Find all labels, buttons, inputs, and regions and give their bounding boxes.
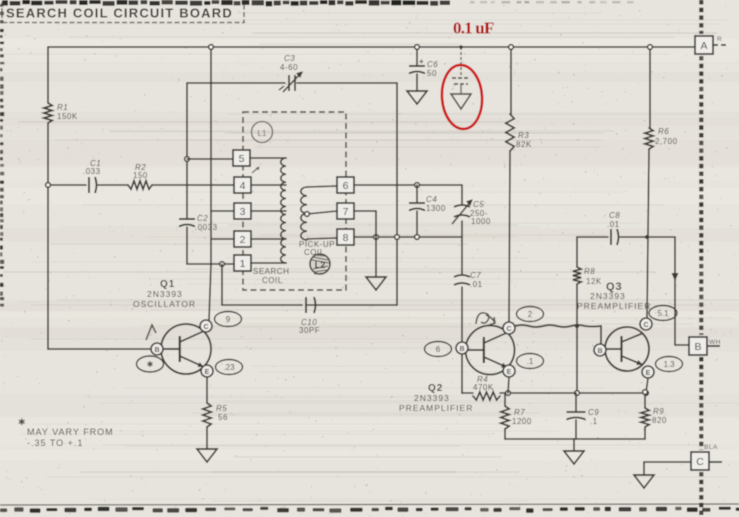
label Q3 2N3393 PREAMPLIFIER <box>577 281 651 311</box>
annotation ellipse 5.1 at Q3 collector <box>649 306 677 321</box>
svg-text:50: 50 <box>427 69 437 78</box>
svg-text:4-60: 4-60 <box>280 63 298 72</box>
svg-text:COIL: COIL <box>262 276 283 285</box>
svg-text:82K: 82K <box>516 140 532 149</box>
board edge dash-dot boundary <box>699 0 703 515</box>
terminal B <box>689 337 707 355</box>
svg-text:WH: WH <box>709 339 721 346</box>
title box: SEARCH COIL CIRCUIT BOARD <box>2 2 244 23</box>
red annotation text 0.1 uF <box>453 19 494 38</box>
svg-text:B: B <box>154 347 159 354</box>
svg-text:R6: R6 <box>658 127 669 136</box>
svg-text:6: 6 <box>343 180 349 192</box>
wire: bus y=237 terminal 8 to C7 branch <box>354 235 462 240</box>
svg-text:R3: R3 <box>518 131 529 140</box>
svg-text:C2: C2 <box>197 214 208 223</box>
transistor Q2 2N3393 preamplifier <box>456 322 515 377</box>
svg-text:E: E <box>646 370 651 377</box>
svg-text:✱: ✱ <box>147 360 154 369</box>
svg-text:150K: 150K <box>57 112 78 121</box>
wire + ground from terminal 7 <box>354 211 386 290</box>
svg-text:B: B <box>694 341 701 353</box>
annotation ellipse 2 at Q2 collector <box>517 307 544 322</box>
svg-text:OSCILLATOR: OSCILLATOR <box>133 299 196 309</box>
svg-text:R7: R7 <box>514 408 525 417</box>
wire: Q2 emitter drop <box>508 377 509 393</box>
capacitor C9 .1 <box>567 393 600 439</box>
svg-text:6: 6 <box>436 345 441 354</box>
annotation ellipse 6 at Q2 base <box>425 342 452 357</box>
pencil tick near terminal 5 <box>252 167 259 173</box>
capacitor C7 .01 <box>454 237 483 342</box>
svg-text:C5: C5 <box>473 200 484 209</box>
svg-text:C: C <box>696 456 704 468</box>
wire: terminal A leads <box>713 36 726 45</box>
label Q2 2N3393 PREAMPLIFIER <box>399 383 473 413</box>
svg-text:L1: L1 <box>258 129 267 138</box>
resistor R1 <box>44 103 78 123</box>
svg-text:B: B <box>459 346 464 353</box>
wire: Q3 emitter drop <box>646 378 648 393</box>
wire: top supply rail <box>48 46 694 48</box>
svg-text:9: 9 <box>226 315 231 324</box>
annotation ellipse 9 at Q1 collector <box>215 312 242 327</box>
svg-text:0.1 uF: 0.1 uF <box>453 19 494 38</box>
svg-text:PREAMPLIFIER: PREAMPLIFIER <box>399 403 473 413</box>
svg-text:SEARCH: SEARCH <box>253 267 289 276</box>
terminal 3 (search coil) <box>234 203 251 219</box>
svg-text:4: 4 <box>240 180 246 192</box>
terminal 5 (search coil) <box>233 150 250 166</box>
svg-text:.0033: .0033 <box>195 223 218 232</box>
svg-text:7: 7 <box>343 206 349 218</box>
resistor R5 56 + emitter ground <box>197 377 228 462</box>
label: PICK-UP COIL <box>299 240 335 257</box>
resistor R3 82K with rail drop to Q2 collector <box>506 45 532 322</box>
coil assembly dashed enclosure <box>243 112 346 290</box>
svg-text:820: 820 <box>652 416 667 425</box>
svg-text:C: C <box>203 324 208 331</box>
svg-text:2N3393: 2N3393 <box>590 291 626 301</box>
svg-text:1: 1 <box>240 258 246 270</box>
wire: box2 tap <box>211 238 234 240</box>
svg-text:2N3393: 2N3393 <box>414 393 450 403</box>
resistor R2 <box>128 163 152 189</box>
capacitor C2 <box>179 214 218 232</box>
svg-text:A: A <box>700 40 707 52</box>
wire: emitter bus y=393 <box>462 354 648 395</box>
label Q1 2N3393 OSCILLATOR <box>133 279 196 309</box>
svg-text:56: 56 <box>218 413 228 422</box>
trimmer capacitor C5 250-1000 <box>452 185 491 237</box>
svg-text:R8: R8 <box>584 267 595 276</box>
svg-text:2: 2 <box>528 310 533 319</box>
annotation ellipse .1 at Q2 emitter <box>517 354 544 369</box>
svg-text:3: 3 <box>240 206 246 218</box>
terminal 8 (pick-up coil) <box>337 229 354 245</box>
ground (emitter bus) <box>564 451 584 464</box>
terminal A <box>695 36 713 54</box>
svg-text:R9: R9 <box>653 407 664 416</box>
svg-text:.01: .01 <box>470 280 483 289</box>
svg-text:8: 8 <box>343 232 349 244</box>
terminal 6 (pick-up coil) <box>337 177 354 193</box>
transistor Q3 2N3393 preamplifier <box>594 318 654 378</box>
svg-text:C3: C3 <box>284 54 295 63</box>
svg-text:5: 5 <box>239 153 245 165</box>
transistor Q1 2N3393 oscillator <box>151 320 213 377</box>
wire: C2 branch vertical x=187 <box>185 83 234 266</box>
wire: terminal C to ground <box>634 444 722 488</box>
wire: oscillator tank loop y=83 / x=397 / y=305 <box>187 83 397 305</box>
pencil annotation: added 0.1 uF cap to ground <box>451 45 471 109</box>
red annotation ellipse <box>440 64 484 131</box>
svg-text:C7: C7 <box>470 271 481 280</box>
annotation ellipse * at Q1 base <box>137 356 164 372</box>
svg-text:30PF: 30PF <box>299 326 320 335</box>
svg-text:E: E <box>507 369 512 376</box>
svg-text:✱: ✱ <box>18 417 26 427</box>
svg-text:12K: 12K <box>586 277 602 286</box>
svg-text:.23: .23 <box>223 363 235 372</box>
coil L1 label circle <box>252 122 273 143</box>
svg-text:MAY VARY FROM: MAY VARY FROM <box>27 427 114 437</box>
wire: box3 tap <box>211 210 234 212</box>
terminal 2 (search coil) <box>234 231 251 247</box>
svg-text:C9: C9 <box>588 408 599 417</box>
svg-text:.1: .1 <box>590 417 598 426</box>
capacitor C1 <box>83 159 101 193</box>
svg-text:1000: 1000 <box>471 217 491 226</box>
wire: Q2 collector to Q3 base (wavy hand-traced) <box>515 324 601 344</box>
svg-text:SEARCH COIL CIRCUIT BOARD: SEARCH COIL CIRCUIT BOARD <box>6 6 233 21</box>
annotation ellipse .23 at Q1 emitter <box>216 360 243 375</box>
svg-text:E: E <box>205 369 210 376</box>
terminal 1 (search coil) <box>234 255 251 271</box>
annotation ellipse 1.3 at Q3 emitter <box>656 357 683 372</box>
resistor R4 470K <box>473 375 500 400</box>
svg-text:B: B <box>597 348 602 355</box>
svg-text:C6: C6 <box>427 60 438 69</box>
svg-text:R1: R1 <box>57 103 68 112</box>
label: SEARCH COIL <box>253 267 289 285</box>
terminal C <box>691 452 709 470</box>
svg-text:1300: 1300 <box>426 204 446 213</box>
capacitor C8 .01 branch to terminal B <box>577 211 689 345</box>
svg-text:.033: .033 <box>83 167 101 176</box>
wire: bus y=185 from terminal 6 to C5 <box>354 183 462 188</box>
svg-text:+: + <box>419 57 424 66</box>
svg-text:1.3: 1.3 <box>663 360 675 369</box>
wire: left rail (R1 branch) <box>47 47 49 349</box>
pencil check arrow near Q1 <box>146 325 156 340</box>
search coil winding L1 <box>250 158 286 263</box>
svg-text:2,700: 2,700 <box>655 137 678 146</box>
wire: vertical from top rail to Q1 collector <box>209 45 214 320</box>
svg-text:2N3393: 2N3393 <box>147 289 183 299</box>
svg-text:.1: .1 <box>527 357 534 366</box>
svg-text:R: R <box>717 36 722 43</box>
resistor R8 12K branch <box>573 237 602 393</box>
capacitor C6 50 (electrolytic) <box>407 45 438 104</box>
svg-text:-.35 TO +.1: -.35 TO +.1 <box>27 438 83 448</box>
wire: Q1 base wire <box>48 348 151 350</box>
svg-text:5.1: 5.1 <box>657 309 669 318</box>
terminal 7 (pick-up coil) <box>337 203 354 219</box>
svg-text:C: C <box>506 326 511 333</box>
wire: box5 tap <box>187 158 234 160</box>
svg-text:C4: C4 <box>426 195 437 204</box>
resistor R9 820 <box>641 390 667 439</box>
resistor R6 2,700 with rail drop to Q3 collector <box>645 45 678 318</box>
svg-text:2: 2 <box>240 234 246 246</box>
svg-text:PREAMPLIFIER: PREAMPLIFIER <box>577 301 651 311</box>
capacitor C10 30PF <box>299 297 320 335</box>
svg-text:L2: L2 <box>315 260 326 270</box>
pick-up coil winding L2 <box>301 186 337 240</box>
svg-text:.01: .01 <box>607 220 620 229</box>
svg-text:470K: 470K <box>473 383 494 392</box>
capacitor C4 1300 <box>409 185 446 237</box>
svg-text:1200: 1200 <box>512 417 532 426</box>
svg-text:150: 150 <box>133 171 148 180</box>
pencil squiggle near Q2 collector <box>476 313 495 325</box>
svg-text:C: C <box>643 322 648 329</box>
wire: ground bus y=439 <box>505 439 645 451</box>
wire: C1/R2 row at y=185 <box>46 183 233 188</box>
svg-text:BLA: BLA <box>704 444 718 451</box>
svg-text:R5: R5 <box>216 404 227 413</box>
coil L2 scribble circle <box>310 254 330 274</box>
terminal 4 (search coil) <box>234 177 251 193</box>
trimmer capacitor C3 4-60 <box>279 54 302 92</box>
resistor R7 1200 <box>501 393 532 439</box>
note: * MAY VARY FROM -.35 TO +.1 <box>18 417 114 448</box>
svg-text:C8: C8 <box>609 211 620 220</box>
